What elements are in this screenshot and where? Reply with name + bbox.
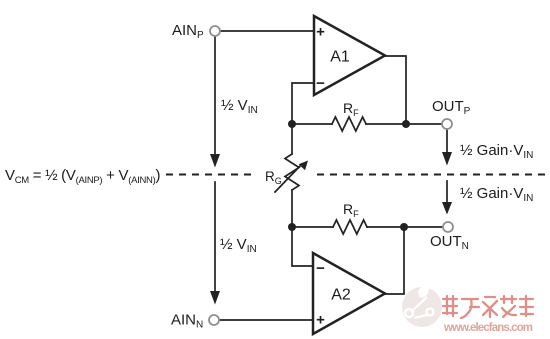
svg-text:+: +: [316, 312, 325, 329]
arrow through RG (variable resistor): [275, 164, 302, 192]
node top-right junction dot: [402, 120, 410, 128]
arrowhead 1/2 Vin bottom: [210, 291, 220, 305]
wire A1 inverting input to node N1: [292, 83, 314, 124]
dashed common-mode line: [166, 174, 550, 176]
arrowhead gain bottom: [442, 202, 452, 215]
terminal AINN: [209, 315, 219, 325]
wire RF top to OUTP: [366, 123, 442, 125]
svg-text:−: −: [316, 75, 325, 92]
wire dashed line down to OUTN arrow: [446, 181, 448, 203]
wire RF bottom to OUTN: [367, 226, 443, 228]
svg-text:½ Gain·VIN: ½ Gain·VIN: [460, 142, 533, 161]
wire RG bottom lead: [291, 190, 293, 227]
watermark logo: [402, 279, 442, 327]
watermark chinese text (approximated strokes): [443, 296, 533, 318]
node N2 junction dot: [288, 223, 296, 231]
node N1 junction dot: [288, 120, 296, 128]
wire AINP down (1/2 Vin top): [214, 36, 216, 156]
terminal OUTN: [443, 222, 453, 232]
terminal OUTP: [442, 119, 452, 129]
arrowhead gain top: [442, 152, 452, 166]
arrowhead 1/2 Vin top: [210, 154, 220, 168]
wire A2 output to bottom feedback node: [385, 227, 404, 294]
wire node N2 to RF bottom: [292, 226, 333, 228]
wire center line below dashed (1/2 Vin bottom): [214, 182, 216, 292]
wire AINN to A2 noninverting input: [219, 319, 313, 321]
wire AINP to A1 noninverting input: [220, 30, 314, 32]
resistor RF bottom zigzag: [333, 220, 367, 234]
svg-text:+: +: [316, 24, 325, 41]
svg-text:A2: A2: [331, 287, 351, 304]
svg-text:½ Gain·VIN: ½ Gain·VIN: [460, 185, 533, 204]
wire RG top lead: [291, 124, 293, 154]
terminal AINP: [210, 26, 220, 36]
wire OUTP down to dashed line: [446, 130, 448, 153]
wire node N1 to RF top: [292, 123, 332, 125]
arrowhead RG variable arrow: [299, 161, 308, 171]
node bottom-right junction dot: [400, 223, 408, 231]
resistor RG zigzag (variable): [285, 154, 299, 190]
svg-text:−: −: [316, 260, 325, 277]
svg-text:www.elecfans.com: www.elecfans.com: [443, 322, 533, 334]
svg-text:A1: A1: [330, 49, 350, 66]
op-amp A1: [314, 16, 385, 95]
wire node N2 to A2 inverting input: [292, 227, 313, 266]
op-amp A2: [313, 253, 385, 334]
wire A1 output to top feedback node: [385, 56, 406, 124]
resistor RF top zigzag: [332, 117, 366, 131]
